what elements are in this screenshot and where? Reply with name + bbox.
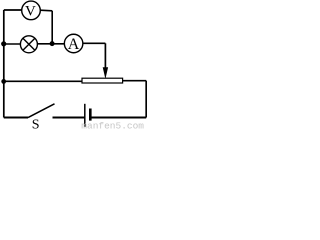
wire left vertical rail (3, 10, 5, 118)
node B junction dot (voltmeter tap) (50, 41, 55, 46)
wire voltmeter branch down to node B (51, 11, 53, 44)
battery BT1 (85, 104, 91, 127)
svg-text:A: A (68, 36, 80, 53)
voltmeter V1 (22, 1, 41, 20)
wire bottom rail left (corner to switch pivot) (4, 117, 28, 119)
svg-text:manfen5.com: manfen5.com (81, 120, 144, 130)
svg-text:V: V (25, 4, 36, 20)
svg-text:S: S (32, 117, 40, 130)
resistor R1 rheostat body (82, 78, 123, 83)
rheostat wiper arrowhead (103, 67, 108, 79)
wire lamp to ammeter (37, 43, 64, 45)
wire top horizontal to voltmeter (4, 9, 23, 11)
wire rheostat right terminal to right rail (123, 80, 147, 82)
node C junction dot (left rail to rheostat) (1, 79, 6, 84)
wire voltmeter right to corner (40, 9, 52, 12)
wire node A to lamp (4, 43, 21, 45)
switch S blade (28, 104, 55, 118)
wire right vertical rail (145, 81, 147, 118)
wire switch contact to battery (53, 117, 85, 119)
wire down to rheostat wiper (104, 43, 106, 69)
wire ammeter to corner above rheostat (83, 42, 106, 44)
ammeter A1 (64, 34, 83, 53)
wire bottom rail right (battery to right rail) (90, 117, 146, 119)
lamp L1 (20, 36, 37, 53)
wire node C rail to rheostat left terminal (4, 80, 82, 82)
node A junction dot (left, lamp rail) (1, 41, 6, 46)
